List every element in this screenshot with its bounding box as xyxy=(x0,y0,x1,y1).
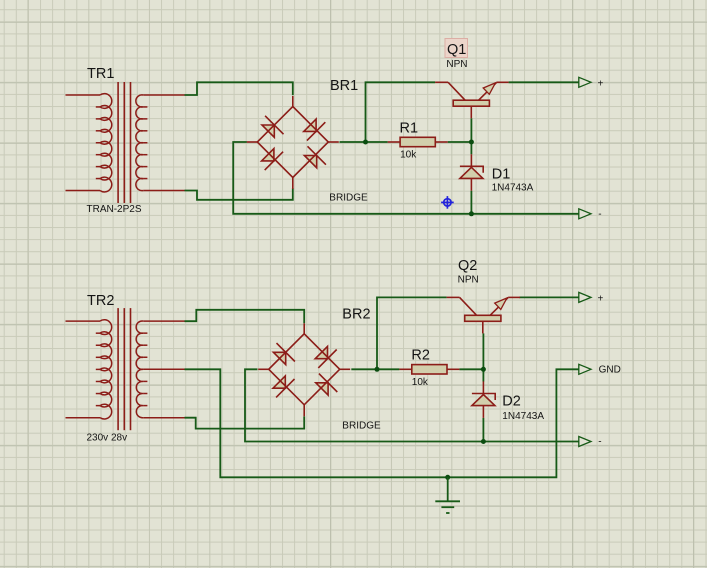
transistor Q2 xyxy=(447,297,520,333)
svg-text:+: + xyxy=(598,293,604,304)
wire R1 right to base node xyxy=(448,141,472,143)
label Q1 highlight box xyxy=(445,39,468,58)
junction D2 anode on negative rail xyxy=(481,439,486,444)
bridge rectifier BR1 diamond xyxy=(247,96,339,189)
transformer TR1 secondary winding xyxy=(136,95,185,191)
resistor R1 xyxy=(388,137,448,146)
origin marker (blue crosshair) xyxy=(441,196,454,209)
wire Q2 base to node xyxy=(482,333,484,369)
svg-text:+: + xyxy=(598,78,604,89)
svg-text:230v 28v: 230v 28v xyxy=(87,433,128,444)
junction BR2 output node xyxy=(375,367,380,372)
svg-text:10k: 10k xyxy=(400,150,417,161)
svg-text:TRAN-2P2S: TRAN-2P2S xyxy=(87,204,142,215)
ground symbol xyxy=(435,477,460,513)
svg-text:R1: R1 xyxy=(400,121,419,137)
bridge BR2 diode top-right xyxy=(315,346,337,368)
wire BR1 riser to Q1 collector line xyxy=(366,82,436,142)
wire R2 right to base node xyxy=(459,368,483,370)
svg-text:BR2: BR2 xyxy=(342,306,370,322)
svg-text:D1: D1 xyxy=(492,167,511,183)
junction R1/Q1 base/D1 node xyxy=(469,140,474,145)
wire TR1 secondary top to BR1 top xyxy=(185,82,293,95)
svg-text:Q1: Q1 xyxy=(447,42,466,58)
wire node to D1 xyxy=(470,142,472,154)
transformer TR1 core xyxy=(118,82,130,203)
bridge BR1 diode bottom-right xyxy=(304,146,326,168)
wire TR2 secondary bottom to BR2 bottom xyxy=(185,416,305,428)
transistor Q1 xyxy=(435,82,509,118)
svg-text:NPN: NPN xyxy=(458,275,479,286)
bridge BR2 diode top-left xyxy=(273,343,295,365)
svg-text:NPN: NPN xyxy=(446,59,467,70)
wire Q1 base to node xyxy=(470,118,472,142)
svg-text:TR2: TR2 xyxy=(87,293,114,309)
terminal - (circuit 1) xyxy=(579,209,591,219)
svg-text:-: - xyxy=(598,437,601,448)
wire TR1 secondary bottom to BR1 bottom xyxy=(185,188,293,200)
transformer TR2 secondary winding xyxy=(136,321,184,418)
wire D2 anode to negative rail xyxy=(482,418,484,442)
bridge BR1 diode bottom-left xyxy=(262,149,284,171)
wire BR1 output to R1 and riser xyxy=(340,141,388,143)
wire D1 anode to negative rail xyxy=(470,191,472,214)
bridge BR2 diode bottom-right xyxy=(316,374,338,396)
svg-text:10k: 10k xyxy=(412,377,429,388)
svg-text:BR1: BR1 xyxy=(330,78,358,94)
wire Q2 emitter to plus terminal xyxy=(519,296,579,298)
bridge rectifier BR2 diamond xyxy=(258,323,350,416)
bridge BR2 diode bottom-left xyxy=(273,376,295,398)
wire node to D2 xyxy=(482,369,484,381)
bridge BR1 diode top-right xyxy=(304,119,326,141)
transformer TR2 core xyxy=(118,308,130,430)
wire TR2 center tap to GND run xyxy=(185,369,579,477)
svg-text:-: - xyxy=(598,209,601,220)
junction ground symbol on GND run xyxy=(445,475,450,480)
wire TR2 secondary top to BR2 top xyxy=(185,310,305,323)
bridge BR1 diode top-left xyxy=(262,116,284,138)
resistor R2 xyxy=(399,365,459,374)
transformer TR1 primary winding xyxy=(66,94,112,192)
svg-text:Q2: Q2 xyxy=(458,258,477,274)
wire BR1 left corner to negative rail xyxy=(233,142,579,214)
svg-text:D2: D2 xyxy=(502,394,521,410)
wire Q1 emitter to plus terminal xyxy=(509,81,579,83)
junction R2/Q2 base/D2 node xyxy=(481,367,486,372)
svg-text:1N4743A: 1N4743A xyxy=(492,183,534,194)
terminal + (circuit 1) xyxy=(579,77,591,87)
junction D1 anode on negative rail xyxy=(469,211,474,216)
wire BR2 output to R2 xyxy=(351,368,399,370)
svg-text:BRIDGE: BRIDGE xyxy=(342,421,381,432)
terminal - (circuit 2) xyxy=(579,437,591,447)
svg-text:BRIDGE: BRIDGE xyxy=(329,193,368,204)
zener diode D1 xyxy=(460,154,483,190)
terminal GND xyxy=(579,364,591,374)
zener diode D2 xyxy=(472,381,495,418)
wire BR2 riser to Q2 collector line xyxy=(377,297,447,369)
svg-text:GND: GND xyxy=(599,364,621,375)
wire BR2 left corner to negative rail xyxy=(245,369,579,441)
terminal + (circuit 2) xyxy=(579,292,591,302)
transformer TR2 primary winding xyxy=(66,320,112,419)
svg-text:1N4743A: 1N4743A xyxy=(502,411,544,422)
svg-text:R2: R2 xyxy=(411,348,430,364)
svg-text:TR1: TR1 xyxy=(87,66,114,82)
junction BR1 output node xyxy=(363,140,368,145)
